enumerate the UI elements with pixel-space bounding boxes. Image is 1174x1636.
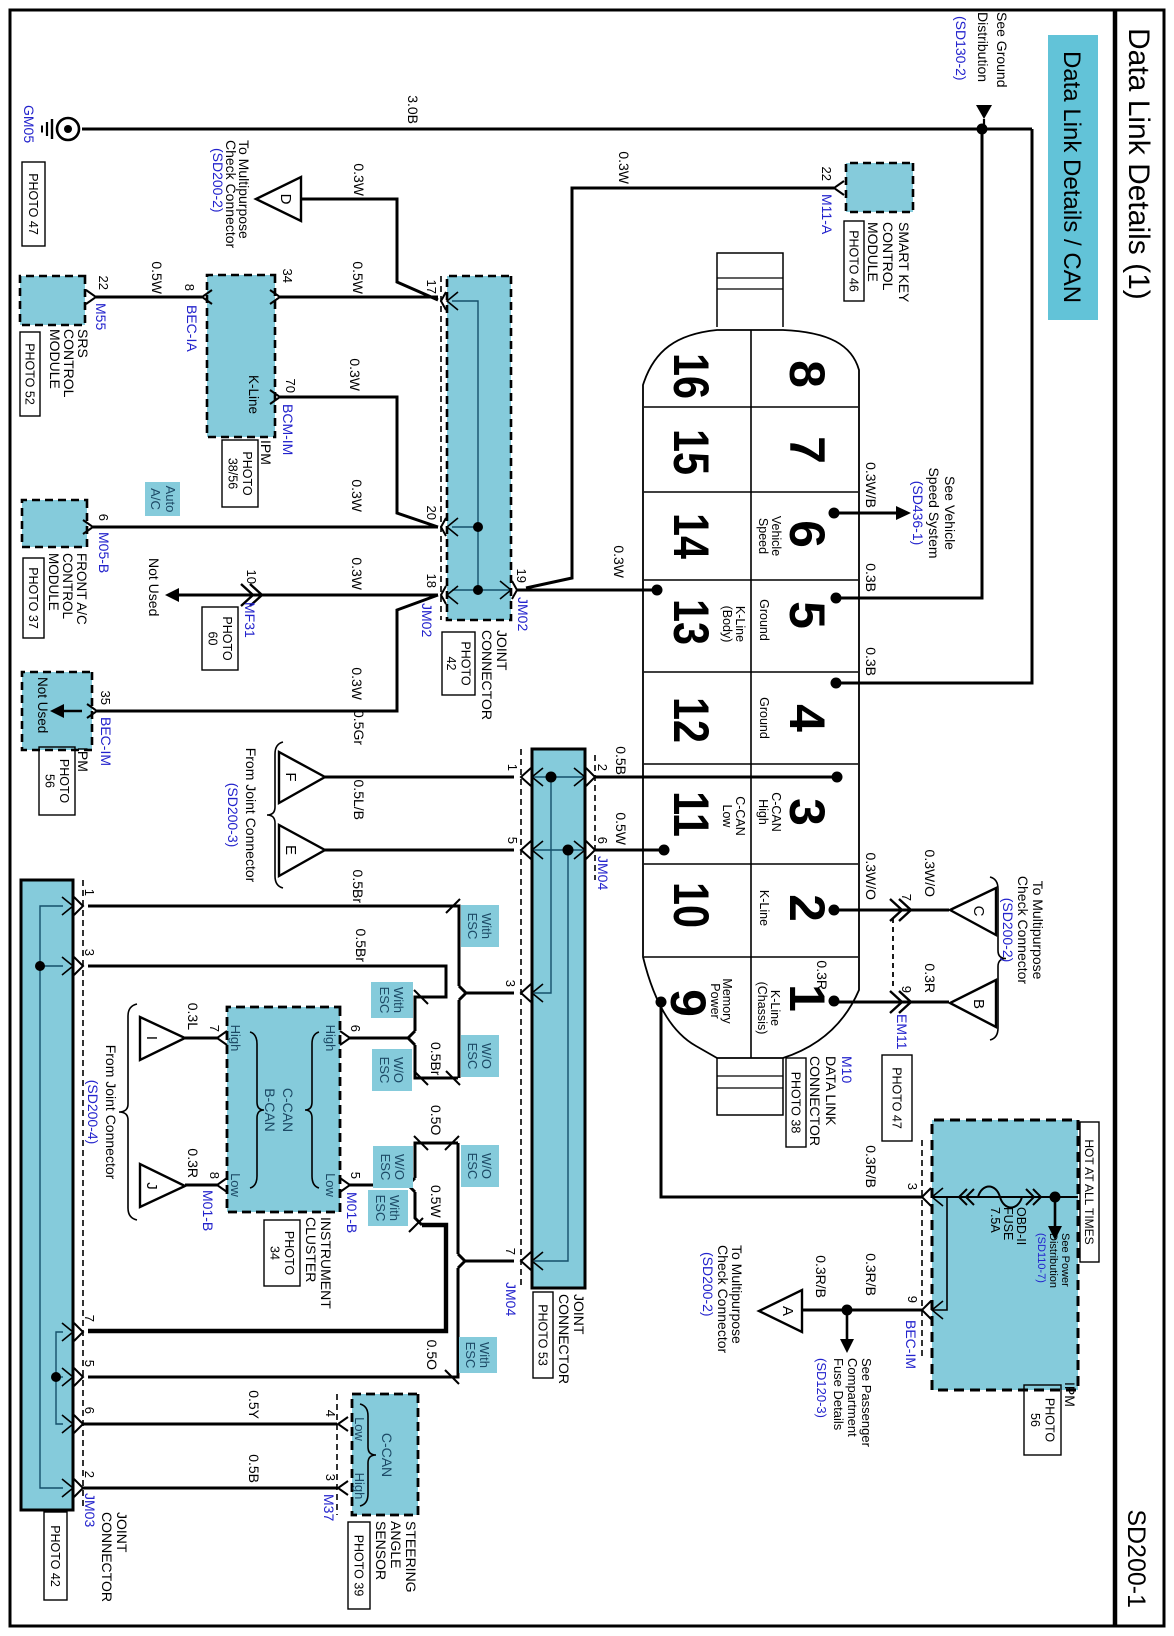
svg-text:HOT AT ALL TIMES: HOT AT ALL TIMES — [1082, 1139, 1096, 1244]
svg-text:K-Line: K-Line — [757, 890, 771, 926]
svg-text:CONNECTOR: CONNECTOR — [807, 1056, 823, 1146]
arrow inside not-used box — [62, 710, 82, 713]
wire JM04 pin7 right arm with-ESC to JM03 pin5 — [88, 1268, 458, 1377]
wire ground 3.0B vertical — [82, 128, 1032, 131]
photo box PHOTO 56 (not used) — [39, 747, 75, 815]
svg-text:DATA LINK: DATA LINK — [823, 1056, 839, 1126]
svg-text:F: F — [282, 772, 299, 781]
svg-text:9: 9 — [899, 986, 914, 993]
svg-text:With: With — [391, 987, 406, 1013]
cluster brace lower — [250, 1032, 264, 1188]
svg-text:(SD200-2): (SD200-2) — [1000, 898, 1016, 963]
JM03 pin 3 — [74, 957, 83, 975]
svg-text:0.5W: 0.5W — [428, 1185, 444, 1218]
JM03 dashed pin line — [82, 880, 84, 1510]
svg-text:0.5W: 0.5W — [613, 812, 629, 845]
svg-text:A: A — [779, 1306, 796, 1316]
svg-text:(SD200-3): (SD200-3) — [225, 783, 241, 848]
svg-text:W/O: W/O — [391, 1057, 406, 1083]
JM02 pin 19 — [512, 581, 517, 599]
off-page triangle E — [279, 825, 325, 876]
wire JM04 pin7 left arm w/o-ESC — [457, 1143, 460, 1254]
JM04 internal high bus — [532, 776, 585, 778]
wire JM02 pin18 to MF31 not used 0.3W — [179, 594, 438, 597]
svg-text:38/56: 38/56 — [225, 458, 239, 489]
svg-text:M05-B: M05-B — [96, 532, 112, 573]
svg-text:PHOTO 53: PHOTO 53 — [536, 1304, 550, 1366]
JM04 pin 5 — [521, 841, 531, 859]
cluster pin 8 — [217, 1178, 227, 1192]
svg-text:B: B — [970, 999, 987, 1009]
svg-text:Speed System: Speed System — [926, 467, 942, 558]
wire JM04 pin3 left arm to JM03 pin1 with-ESC 0.5Br — [88, 906, 459, 986]
M37 brace — [360, 1404, 376, 1506]
svg-text:JM03: JM03 — [82, 1493, 98, 1527]
svg-text:0.5L/B: 0.5L/B — [351, 780, 367, 820]
svg-text:See Vehicle: See Vehicle — [942, 476, 958, 550]
svg-text:MODULE: MODULE — [46, 553, 61, 611]
JM02 pin 20 — [441, 518, 446, 536]
node cell9 memory power — [656, 997, 667, 1008]
wire cluster pin5 C-CAN low fork — [348, 1178, 415, 1185]
svg-text:0.3R/B: 0.3R/B — [863, 1253, 879, 1296]
svg-text:22: 22 — [96, 276, 111, 290]
svg-text:M37: M37 — [321, 1494, 337, 1521]
wire M05-B pin6 to JM02 pin20 0.3W — [93, 526, 438, 529]
svg-text:0.5O: 0.5O — [428, 1105, 444, 1135]
svg-text:0.5O: 0.5O — [424, 1340, 440, 1370]
svg-text:0.5Y: 0.5Y — [246, 1390, 262, 1419]
svg-text:2: 2 — [595, 764, 610, 771]
off-page triangle A — [759, 1290, 802, 1332]
pin 22 M11-A — [834, 181, 844, 195]
svg-text:(SD200-4): (SD200-4) — [85, 1080, 101, 1145]
M10 latch tab right — [717, 1058, 783, 1115]
svg-text:JOINT: JOINT — [494, 630, 510, 671]
svg-text:5: 5 — [779, 601, 835, 629]
svg-text:Low: Low — [720, 805, 734, 829]
wire M55 pin22 to BEC-IA pin8 0.5W — [96, 296, 202, 299]
svg-text:35: 35 — [98, 691, 113, 705]
svg-text:JM04: JM04 — [595, 856, 611, 890]
module instrument cluster M01-B — [227, 1007, 340, 1212]
JM04 pin 2 — [586, 768, 595, 786]
inline connector 7 (C wire) — [899, 899, 911, 921]
fuse chevrons lower — [966, 1189, 974, 1205]
photo box PHOTO 47 (EM11) — [882, 1055, 912, 1141]
svg-text:0.5W: 0.5W — [350, 261, 366, 294]
joint connector JM04 box — [532, 749, 585, 1288]
wire ground branch y=142 to connector pin4 — [840, 129, 1032, 683]
svg-text:Power: Power — [708, 983, 722, 1018]
node cell2 k-line — [829, 905, 840, 916]
fuse box IPM hot at all times — [932, 1120, 1078, 1390]
svg-text:ESC: ESC — [377, 987, 392, 1014]
cluster pin 7 — [217, 1031, 227, 1045]
svg-text:0.5Br: 0.5Br — [428, 1042, 444, 1076]
svg-text:8: 8 — [779, 360, 835, 388]
M10 cell grid — [750, 330, 752, 1058]
brace I/J — [119, 1004, 137, 1220]
wire E to JM04 pin5 0.5L/B — [325, 849, 514, 852]
fuse symbol OBD-II 7.5A — [978, 1187, 1022, 1208]
brace F/E — [267, 742, 283, 888]
arrow not used (MF31 wire) — [165, 588, 179, 602]
JM04 pin 1 — [521, 768, 531, 786]
svg-text:(Chassis): (Chassis) — [755, 982, 769, 1035]
svg-text:3.0B: 3.0B — [405, 95, 421, 124]
svg-text:12: 12 — [663, 697, 719, 743]
JM02 internal bus — [452, 301, 478, 590]
wire BCM-IM pin70 to JM02 pin20 0.3W — [280, 397, 438, 527]
svg-text:20: 20 — [424, 506, 439, 520]
svg-text:34: 34 — [280, 269, 295, 283]
svg-text:1: 1 — [82, 889, 97, 896]
svg-text:(Body): (Body) — [720, 606, 734, 643]
photo box PHOTO 53 — [533, 1292, 553, 1378]
svg-text:JM02: JM02 — [419, 603, 435, 637]
JM02 pin 17 — [441, 292, 446, 310]
wire cell1 to EM11 0.3R — [834, 1001, 949, 1004]
svg-text:0.3W/O: 0.3W/O — [922, 850, 938, 898]
node cell11 c-can low — [659, 845, 670, 856]
fuse circuit vertical — [932, 1196, 1078, 1198]
svg-text:0.3R: 0.3R — [814, 960, 830, 990]
svg-text:SD200-1: SD200-1 — [1122, 1509, 1150, 1608]
photo box PHOTO 52 — [20, 332, 40, 416]
svg-text:M10: M10 — [839, 1056, 855, 1083]
svg-text:M55: M55 — [93, 303, 109, 330]
svg-text:MF31: MF31 — [242, 602, 258, 638]
wire JM04 pin3 right arm w/o-ESC — [458, 1000, 461, 1078]
fuse internal wire to pin 9 — [932, 1197, 947, 1310]
pin 70 BCM-IM — [270, 390, 280, 404]
wire with-ESC low: fork right arm to JM03 pin7 0.5W thick — [415, 1192, 422, 1225]
svg-text:CONNECTOR: CONNECTOR — [556, 1294, 572, 1384]
label with ESC (cluster low) — [368, 1190, 408, 1226]
JM03 pin 1 — [74, 897, 83, 915]
cluster brace upper — [305, 1032, 319, 1188]
svg-text:PHOTO 39: PHOTO 39 — [352, 1535, 366, 1597]
svg-text:PHOTO: PHOTO — [57, 759, 71, 803]
svg-text:ESC: ESC — [465, 1153, 480, 1180]
wire JM02 pin19 to cell13 0.3W — [517, 589, 657, 592]
svg-text:M01-B: M01-B — [344, 1192, 360, 1233]
wire triangle D to JM02 pin17 0.3W — [301, 199, 438, 300]
svg-text:(SD200-2): (SD200-2) — [210, 148, 226, 213]
svg-text:Low: Low — [323, 1173, 338, 1197]
label w/o ESC (JM04 pin7) — [461, 1145, 499, 1187]
ground symbol GM05 — [57, 118, 79, 140]
JM03 internal high bus — [40, 906, 63, 1488]
svg-text:(SD120-3): (SD120-3) — [814, 1358, 829, 1418]
svg-text:BEC-IA: BEC-IA — [184, 305, 200, 352]
svg-text:JOINT: JOINT — [571, 1294, 587, 1335]
svg-text:BCM-IM: BCM-IM — [280, 404, 296, 455]
wire J to cluster pin8 0.3R — [185, 1184, 219, 1187]
fuse box dashed pin line — [921, 1140, 923, 1360]
svg-text:High: High — [756, 799, 770, 825]
svg-text:See Power: See Power — [1059, 1233, 1071, 1287]
svg-text:With: With — [479, 913, 494, 939]
wire JM03 pin2 to M37 pin3 0.5B — [83, 1487, 337, 1490]
svg-text:PHOTO 46: PHOTO 46 — [847, 230, 861, 292]
photo box PHOTO 38 — [786, 1058, 806, 1147]
svg-text:M01-B: M01-B — [200, 1190, 216, 1231]
cluster pin 5 — [340, 1178, 350, 1192]
svg-text:IPM: IPM — [258, 440, 274, 465]
svg-text:19: 19 — [514, 569, 529, 583]
svg-text:(SD436-1): (SD436-1) — [910, 481, 926, 546]
wire pin9 to triangle A 0.3R/B — [802, 1309, 922, 1312]
off-page triangle D — [256, 177, 301, 221]
svg-text:7: 7 — [82, 1315, 97, 1322]
svg-text:Ground: Ground — [757, 697, 771, 739]
svg-text:0.5W: 0.5W — [149, 261, 165, 294]
module front A/C control module M05-B — [22, 500, 87, 547]
node cell6 vehicle speed — [829, 508, 840, 519]
svg-text:See Passenger: See Passenger — [859, 1358, 874, 1448]
wire with-ESC high: fork to JM03 pin3 0.5Br — [88, 966, 446, 1031]
photo box PHOTO 34 — [264, 1220, 300, 1286]
junction dot passenger fuse branch — [842, 1305, 853, 1316]
wire cell11 to JM04 pin6 0.5W — [595, 849, 664, 852]
wire JM04 pin7 stem and fork — [458, 1254, 514, 1261]
svg-text:6: 6 — [348, 1025, 363, 1032]
header separator line — [1113, 10, 1118, 1626]
svg-text:0.3R: 0.3R — [922, 963, 938, 993]
svg-text:6: 6 — [779, 520, 835, 548]
JM03 pin 5 — [74, 1368, 83, 1386]
svg-text:STEERING: STEERING — [403, 1521, 419, 1593]
svg-text:Data Link Details / CAN: Data Link Details / CAN — [1058, 51, 1085, 303]
svg-text:FUSE: FUSE — [1001, 1207, 1015, 1240]
JM04 pin 7 — [521, 1252, 531, 1270]
svg-text:IPM: IPM — [75, 747, 91, 772]
photo box PHOTO 38/56 — [222, 440, 258, 507]
svg-text:Speed: Speed — [756, 518, 770, 554]
wire cell2 to connector C 0.3W/O — [834, 909, 949, 912]
svg-text:0.5B: 0.5B — [613, 746, 629, 775]
svg-text:MODULE: MODULE — [47, 329, 63, 389]
svg-text:4: 4 — [323, 1410, 338, 1417]
svg-text:From Joint Connector: From Joint Connector — [103, 1045, 119, 1180]
svg-text:60: 60 — [205, 632, 219, 646]
inline connector MF31 — [250, 584, 262, 606]
wire JM04 pin3 stem and fork — [459, 986, 514, 993]
svg-text:To Multipurpose: To Multipurpose — [1030, 881, 1046, 980]
svg-text:C-CAN: C-CAN — [280, 1088, 296, 1132]
svg-text:W/O: W/O — [392, 1154, 407, 1180]
svg-text:Distribution: Distribution — [1047, 1233, 1059, 1288]
svg-text:W/O: W/O — [479, 1043, 494, 1069]
svg-text:D: D — [277, 194, 294, 205]
module IPM BEC-IM not used — [22, 672, 92, 750]
svg-text:0.3W: 0.3W — [347, 358, 363, 391]
svg-text:0.3W: 0.3W — [616, 151, 632, 184]
svg-text:56: 56 — [42, 774, 56, 788]
brace C/B — [990, 877, 1006, 1040]
pin 6 M05-B — [83, 520, 93, 534]
svg-text:CONNECTOR: CONNECTOR — [99, 1512, 115, 1602]
svg-text:8: 8 — [182, 284, 197, 291]
joint connector JM02 box — [447, 276, 511, 620]
photo box PHOTO 42 (JM02) — [442, 632, 475, 695]
svg-text:SMART KEY: SMART KEY — [896, 222, 912, 303]
photo box PHOTO 60 — [202, 607, 238, 670]
label w/o ESC (JM04 pin3) — [461, 1035, 499, 1077]
svg-text:ESC: ESC — [465, 1043, 480, 1070]
wire cell3 to JM04 pin2 0.5B — [595, 776, 837, 779]
JM02 pin 18 — [441, 586, 446, 604]
label with ESC (JM03 pin5) — [459, 1337, 497, 1373]
JM03 internal low bus — [56, 1332, 63, 1424]
svg-text:Compartment: Compartment — [845, 1358, 860, 1437]
wire BEC-IM pin34 to JM02 pin17 0.5W — [280, 296, 438, 299]
svg-text:70: 70 — [283, 379, 298, 393]
svg-text:14: 14 — [663, 513, 719, 559]
svg-text:CONNECTOR: CONNECTOR — [479, 630, 495, 720]
svg-text:GM05: GM05 — [21, 105, 37, 143]
tick w/o-ESC low (cluster) — [414, 1136, 428, 1150]
tick JM04 pin7 left arm — [445, 1136, 459, 1150]
tick with-ESC low (cluster) — [409, 1218, 423, 1232]
module SRS control module M55 — [20, 276, 85, 325]
svg-text:11: 11 — [663, 791, 719, 837]
svg-text:MODULE: MODULE — [865, 222, 881, 282]
svg-text:See Ground: See Ground — [994, 12, 1010, 88]
node cell1 k-line chassis — [829, 996, 840, 1007]
svg-text:I: I — [143, 1036, 160, 1040]
svg-text:(SD200-2): (SD200-2) — [700, 1252, 716, 1317]
fuse pin 3 — [922, 1188, 931, 1206]
svg-text:M11-A: M11-A — [819, 194, 835, 235]
svg-text:0.3W: 0.3W — [349, 667, 365, 700]
svg-text:C-CAN: C-CAN — [733, 796, 747, 836]
svg-text:INSTRUMENT: INSTRUMENT — [318, 1217, 334, 1309]
svg-text:6: 6 — [82, 1407, 97, 1414]
svg-text:ANGLE: ANGLE — [388, 1521, 404, 1568]
svg-text:17: 17 — [424, 280, 439, 294]
svg-text:Low: Low — [352, 1417, 367, 1441]
svg-text:7.5A: 7.5A — [988, 1207, 1002, 1233]
svg-text:High: High — [228, 1025, 243, 1052]
label w/o ESC (cluster low) — [373, 1146, 413, 1188]
fuse chevrons upper — [1026, 1189, 1034, 1205]
module steering angle sensor M37 — [352, 1394, 418, 1515]
svg-text:22: 22 — [819, 167, 834, 181]
svg-text:C: C — [970, 906, 987, 917]
svg-text:ESC: ESC — [463, 1342, 478, 1369]
svg-text:Vehicle: Vehicle — [769, 516, 783, 556]
svg-text:34: 34 — [267, 1246, 281, 1260]
JM04 dashed pin line bottom — [520, 749, 522, 1288]
svg-text:0.3B: 0.3B — [863, 647, 879, 676]
svg-text:Not Used: Not Used — [35, 677, 50, 733]
svg-text:ESC: ESC — [378, 1154, 393, 1181]
svg-text:FRONT A/C: FRONT A/C — [74, 553, 89, 625]
svg-text:PHOTO: PHOTO — [458, 641, 472, 685]
cluster pin 6 — [340, 1031, 350, 1045]
off-page triangle J — [140, 1164, 185, 1207]
svg-text:6: 6 — [96, 514, 111, 521]
svg-text:Distribution: Distribution — [975, 12, 991, 82]
svg-text:K-Line: K-Line — [246, 375, 261, 414]
pin 22 M55 — [86, 290, 96, 304]
svg-text:EM11: EM11 — [894, 1014, 910, 1050]
tick JM04 pin3 right arm — [446, 1071, 460, 1085]
svg-text:PHOTO: PHOTO — [282, 1231, 296, 1275]
svg-text:7: 7 — [779, 436, 835, 464]
node cell13 k-line body — [652, 585, 663, 596]
svg-text:A/C: A/C — [148, 488, 163, 510]
svg-text:SENSOR: SENSOR — [373, 1521, 389, 1580]
svg-text:PHOTO 47: PHOTO 47 — [890, 1067, 904, 1129]
svg-text:5: 5 — [348, 1172, 363, 1179]
svg-text:From Joint Connector: From Joint Connector — [243, 748, 259, 883]
pin 35 BEC-IM — [87, 704, 97, 718]
wire w/o-ESC high: fork to JM04 pin3 arm 0.5Br — [415, 1045, 458, 1078]
off-page triangle B — [950, 980, 996, 1027]
svg-text:9: 9 — [905, 1296, 920, 1303]
label with ESC (cluster high) — [371, 982, 413, 1018]
M37 pin 3 — [338, 1481, 348, 1495]
label w/o ESC (cluster high) — [372, 1049, 412, 1091]
pin 34 BEC-IM — [270, 290, 280, 304]
JM02 dashed pin line — [440, 276, 442, 620]
svg-text:9: 9 — [660, 989, 716, 1017]
wire F to JM04 pin1 0.5Gr — [325, 776, 514, 779]
node cell4 ground — [831, 678, 842, 689]
svg-text:8: 8 — [207, 1172, 222, 1179]
svg-text:0.5Br: 0.5Br — [353, 929, 369, 963]
M10 latch tab left — [717, 253, 783, 327]
arrow see power distribution — [1054, 1197, 1057, 1227]
photo box PHOTO 56 (fuse box) — [1024, 1385, 1061, 1455]
svg-text:1: 1 — [505, 764, 520, 771]
svg-text:CONTROL: CONTROL — [880, 222, 896, 291]
arrow from ground distribution — [976, 105, 992, 119]
svg-text:15: 15 — [663, 429, 719, 475]
JM04 pin 3 — [521, 984, 531, 1002]
svg-text:CLUSTER: CLUSTER — [303, 1217, 319, 1282]
node fuse output — [1050, 1192, 1061, 1203]
joint connector JM03 box — [21, 880, 73, 1510]
svg-text:BEC-IM: BEC-IM — [98, 717, 114, 766]
label with ESC (JM04 pin3) — [461, 905, 499, 947]
photo box PHOTO 37 — [23, 558, 44, 638]
svg-text:C-CAN: C-CAN — [379, 1433, 395, 1477]
svg-text:10: 10 — [663, 882, 719, 928]
svg-text:7: 7 — [207, 1025, 222, 1032]
svg-text:(SD110-7): (SD110-7) — [1035, 1233, 1047, 1283]
M37 pin 4 — [338, 1417, 348, 1431]
wire ground branch y=192 to connector pin5 — [841, 129, 982, 598]
inline connector 9 EM11 — [899, 991, 911, 1013]
svg-text:C-CAN: C-CAN — [769, 792, 783, 832]
svg-text:0.3W: 0.3W — [611, 545, 627, 578]
arrow see passenger compartment — [846, 1310, 849, 1340]
svg-text:0.3R: 0.3R — [185, 1148, 201, 1178]
tick with-ESC high (cluster) — [414, 990, 428, 1004]
svg-text:Low: Low — [228, 1173, 243, 1197]
svg-text:CONTROL: CONTROL — [60, 553, 75, 619]
svg-text:Fuse Details: Fuse Details — [831, 1358, 846, 1431]
svg-text:0.3L: 0.3L — [185, 1003, 201, 1030]
JM03 pin 2 — [74, 1479, 83, 1497]
data link connector M10 outline — [643, 330, 859, 1058]
svg-text:0.5Gr: 0.5Gr — [351, 710, 367, 745]
